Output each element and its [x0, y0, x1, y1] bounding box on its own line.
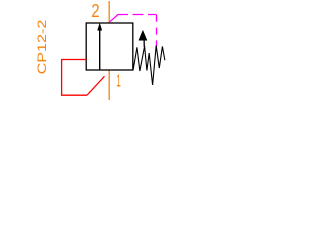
wire port 2 (orange, above valve body): [108, 1, 110, 23]
svg-text:2: 2: [91, 1, 99, 21]
wire red net (left loop): [62, 60, 87, 96]
pilot line vertical segment (magenta dashed): [156, 15, 158, 48]
svg-text:1: 1: [116, 71, 121, 91]
pilot arrow (black, pointing up, beside spring): [139, 30, 147, 47]
spring (zigzag): [133, 46, 165, 86]
valve body box: [86, 23, 133, 70]
wire port 1 (orange, below valve body): [108, 71, 110, 101]
svg-text:CP12-2: CP12-2: [35, 19, 49, 74]
check valve arrow (inside box, pointing up): [98, 24, 102, 70]
pilot line (magenta dashed): [110, 15, 157, 22]
wire red diagonal: [87, 76, 105, 95]
